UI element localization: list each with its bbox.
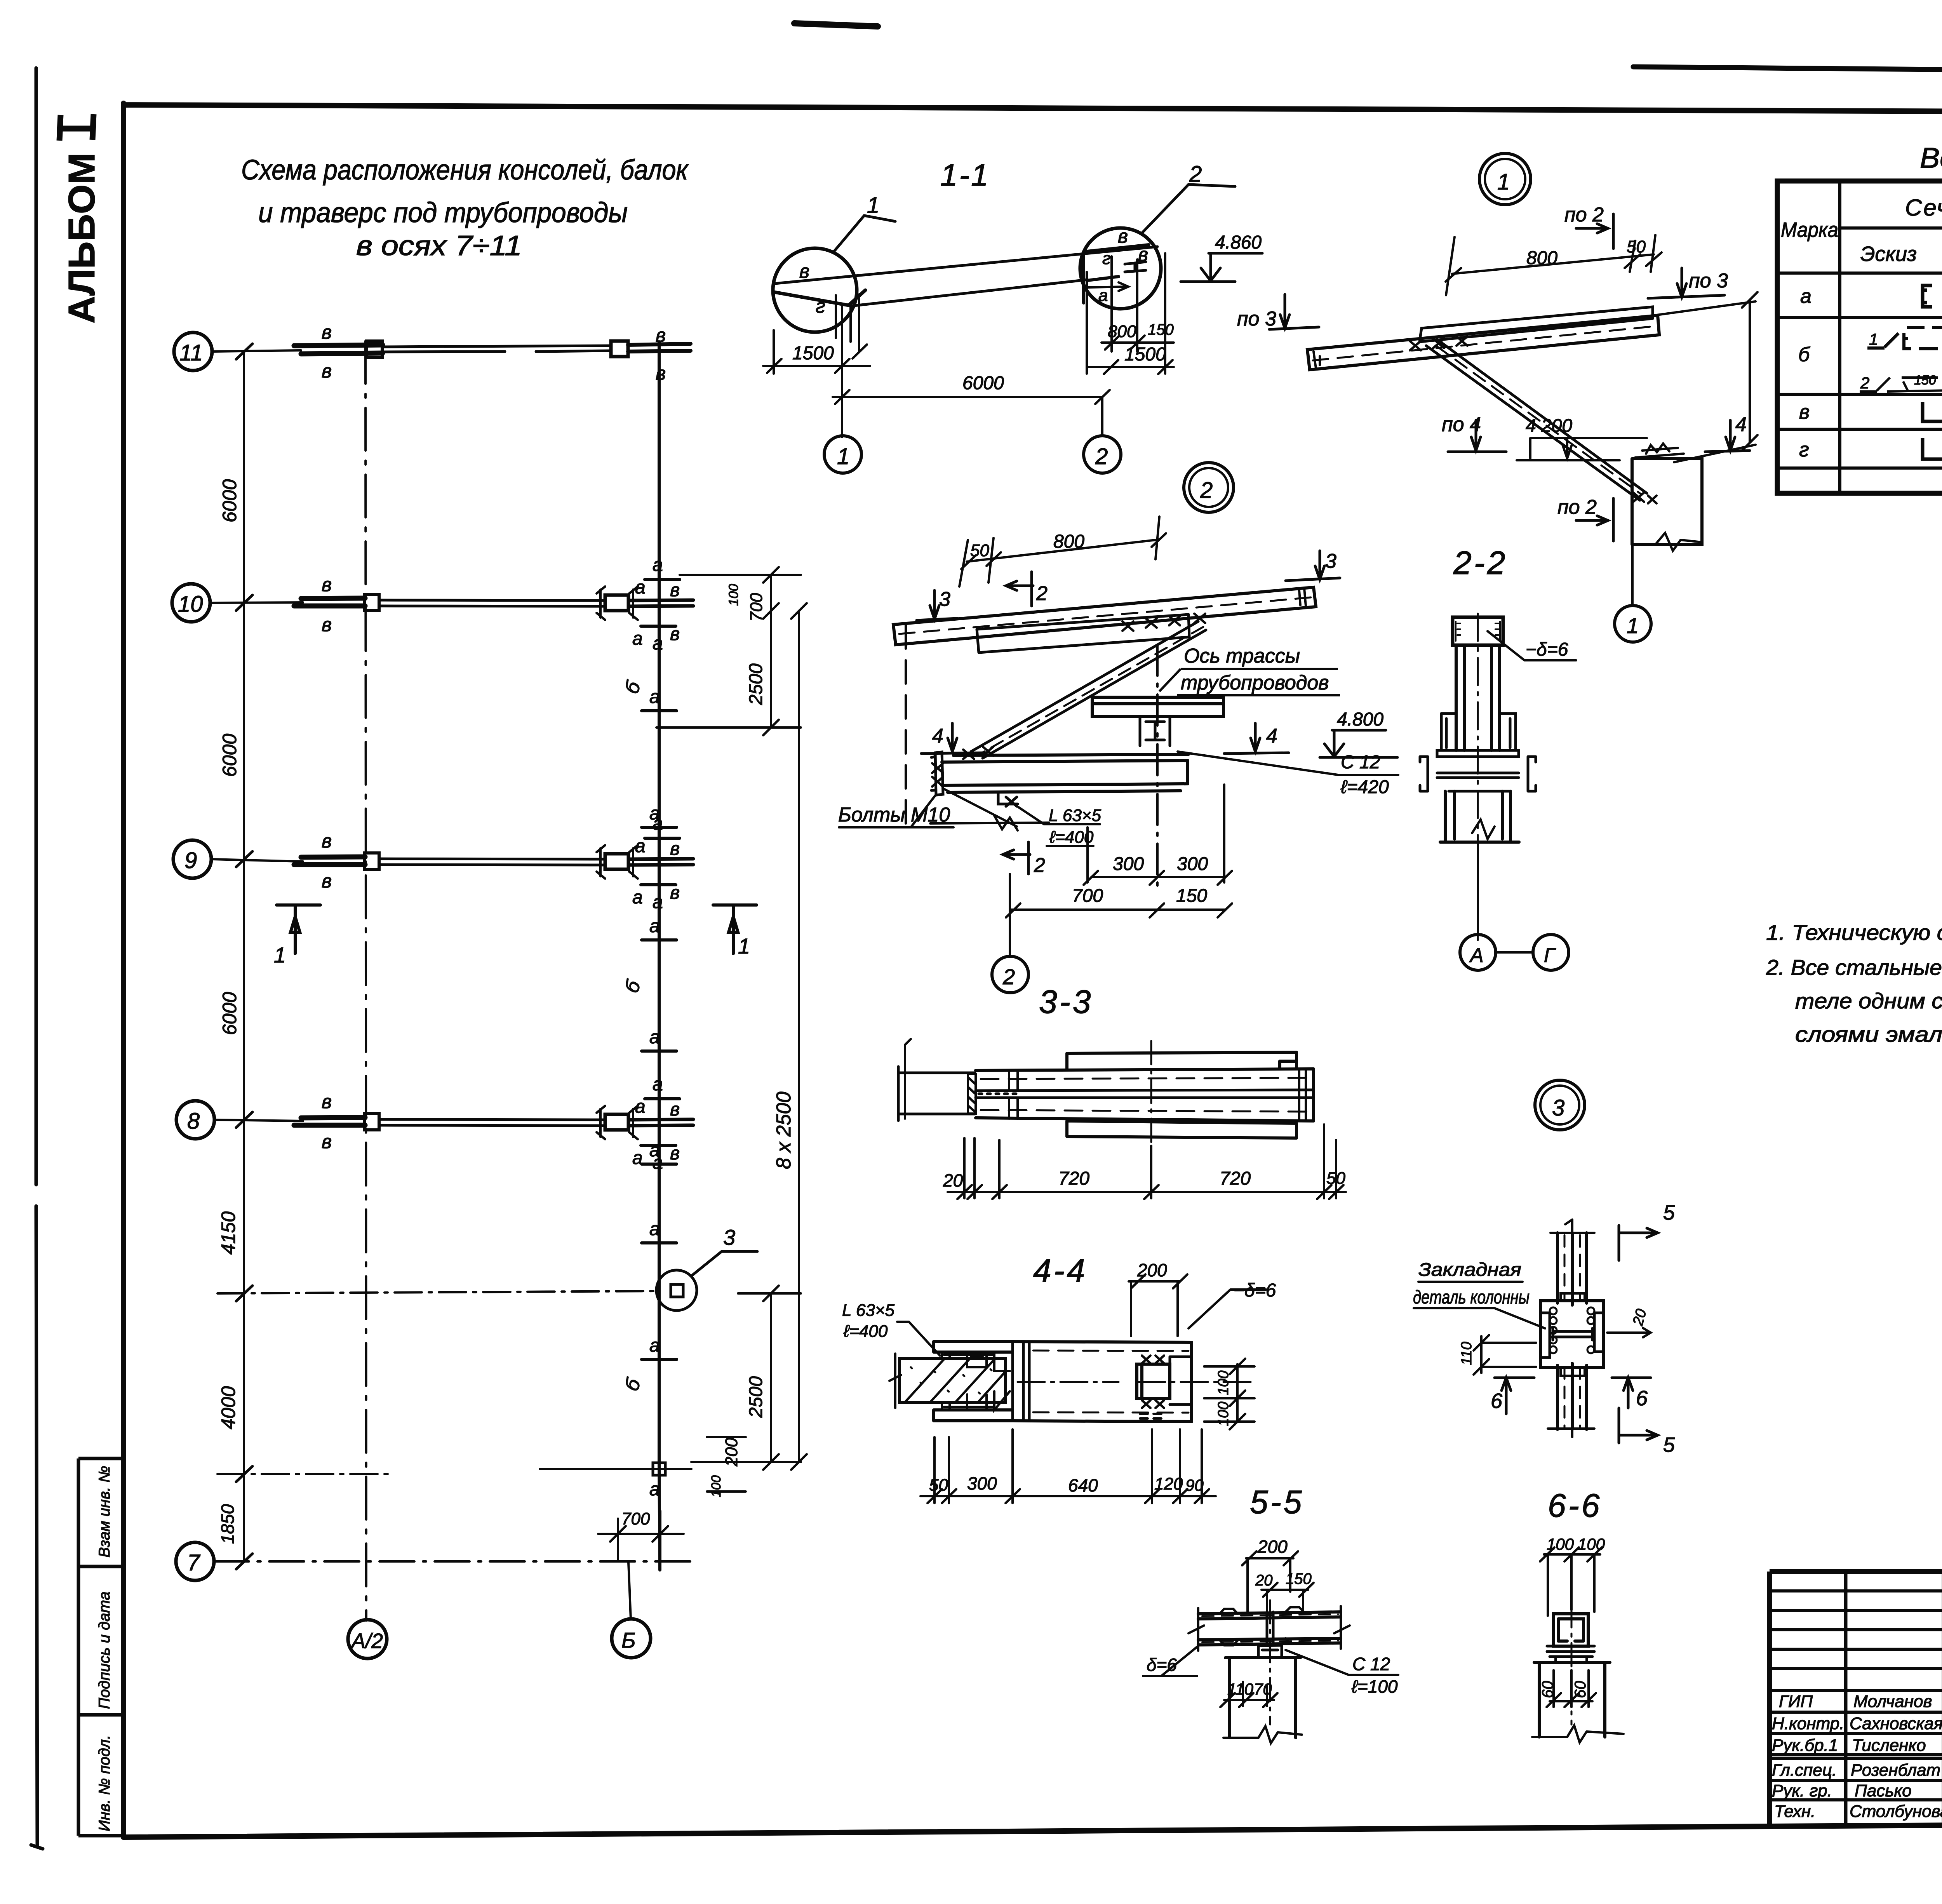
beam axis11 right end: [628, 344, 691, 352]
intermediate tick line 4150: [218, 1291, 656, 1293]
svg-text:10: 10: [178, 592, 203, 617]
svg-text:9: 9: [184, 848, 197, 873]
left extension with break: [930, 816, 1049, 830]
6-6 column break bottom: [1532, 1725, 1624, 1742]
dim 300 300 lines: [1084, 785, 1232, 885]
3-3 left beam extension: [898, 1067, 975, 1121]
svg-text:200: 200: [722, 1438, 741, 1467]
svg-text:деталь колонны: деталь колонны: [1413, 1287, 1530, 1308]
3-3 lower plate: [1067, 1121, 1296, 1138]
svg-text:60: 60: [1572, 1681, 1589, 1699]
title block signature rows: [1770, 1591, 1942, 1800]
5-5 bolt bumps bottom: [1220, 1638, 1304, 1645]
2-2 traverse channels: [1420, 757, 1536, 791]
console beam dashed axis: [1313, 326, 1655, 360]
svg-text:6: 6: [1636, 1387, 1648, 1410]
detail3 plate assembly outer: [1540, 1301, 1603, 1368]
svg-text:г: г: [1102, 249, 1111, 268]
svg-text:Столбунова: Столбунова: [1850, 1802, 1942, 1821]
5-5 column break: [1223, 1726, 1302, 1743]
axis line down to circle 1: [841, 412, 843, 436]
svg-text:ℓ=400: ℓ=400: [843, 1322, 888, 1341]
beam axis8 right end: [628, 1119, 693, 1126]
4-4 main beam top/bottom: [1013, 1342, 1192, 1422]
table header row lines: [1840, 226, 1942, 230]
beam row axis 10: [294, 580, 693, 626]
5-5 dashed lines in bars: [1202, 1614, 1338, 1616]
svg-text:6000: 6000: [219, 479, 240, 522]
beam axis11 middle: [382, 346, 611, 352]
beam dashed axis: [899, 597, 1311, 634]
svg-text:1: 1: [738, 934, 750, 958]
2-2 traverse web: [1437, 757, 1519, 791]
A/2 axis dash-dot line: [365, 341, 366, 1620]
console beam end cap left: [1314, 352, 1320, 368]
weld x marks crossing detail 2: [1122, 614, 1205, 631]
svg-text:Закладная: Закладная: [1418, 1260, 1521, 1280]
axis circle 2 below detail 2: [992, 956, 1028, 993]
svg-text:Болты М10: Болты М10: [838, 804, 950, 826]
4-4 dashes in right plate: [1140, 1414, 1161, 1418]
svg-text:5: 5: [1663, 1433, 1675, 1457]
base traverse assembly top plate: [954, 754, 1189, 755]
base left bracket: [931, 752, 943, 795]
svg-text:300: 300: [967, 1473, 997, 1493]
pipe axis vertical dash-dot: [1156, 645, 1159, 889]
svg-text:800: 800: [1053, 531, 1084, 552]
svg-text:1-1: 1-1: [940, 158, 990, 192]
svg-text:300: 300: [1113, 854, 1144, 874]
svg-text:L 63×5: L 63×5: [1049, 806, 1102, 825]
detail 3 leader: [691, 1251, 757, 1276]
lower short beam of detail 2: [977, 614, 1189, 653]
detail circle 2 (double ring): [1184, 463, 1234, 512]
pipe support bar (shoe): [1092, 697, 1223, 717]
po 3 mark right: [1269, 294, 1319, 329]
leader 1: [833, 216, 895, 252]
svg-text:б: б: [1798, 343, 1810, 366]
5-5 column: [1225, 1658, 1300, 1738]
svg-text:120: 120: [1154, 1474, 1183, 1493]
axis 11 circle: [174, 332, 212, 371]
svg-text:a: a: [649, 1140, 660, 1161]
5-5 dim 200: [1242, 1551, 1298, 1612]
svg-text:20: 20: [1255, 1572, 1273, 1589]
beam axis9 right end: [628, 859, 693, 865]
leader L63x5 (4-4): [897, 1322, 940, 1356]
row a: sketch channel: [1923, 285, 1932, 307]
svg-text:1: 1: [1627, 613, 1639, 638]
dim 700 150 lines: [1006, 874, 1232, 917]
svg-text:4: 4: [1266, 725, 1277, 747]
svg-text:a: a: [632, 887, 643, 908]
column plate axis11: [367, 341, 382, 357]
3-3 upper plate: [1067, 1052, 1296, 1069]
svg-text:50: 50: [929, 1476, 948, 1495]
svg-text:700: 700: [747, 593, 766, 621]
table row lines: [1777, 273, 1942, 468]
sheet left edge line: [31, 68, 43, 1849]
svg-text:Схема расположения консолей,: Схема расположения консолей, балок: [241, 155, 689, 186]
beam axis9 middle: [379, 859, 605, 865]
5-5 leader C12: [1286, 1650, 1398, 1675]
axis A/2 circle: [348, 1620, 387, 1659]
4-4 centerline: [1018, 1381, 1255, 1383]
svg-text:70: 70: [1254, 1680, 1272, 1698]
svg-text:50: 50: [1627, 237, 1646, 256]
svg-text:100: 100: [1215, 1402, 1232, 1426]
beam axis11 right bracket: [611, 341, 628, 357]
2-2 axis circle A: [1460, 935, 1496, 970]
svg-text:1500: 1500: [792, 343, 834, 364]
svg-text:ℓ=400: ℓ=400: [1049, 828, 1094, 847]
detail3 bolts left column: [1550, 1307, 1557, 1314]
svg-text:a: a: [649, 1335, 660, 1356]
beam axis9 right connection: [605, 854, 628, 869]
3-3 dimension line: [948, 1124, 1346, 1199]
table outer border: [1777, 181, 1942, 493]
svg-text:Рук.бр.1: Рук.бр.1: [1772, 1736, 1838, 1755]
right height dim line: [1654, 292, 1758, 462]
upper beam right part: [1420, 307, 1653, 342]
axis 10 line: [210, 602, 303, 603]
detail3 column verticals: [1557, 1233, 1587, 1429]
leader 2: [1142, 184, 1235, 233]
2-2 centerline: [1477, 614, 1479, 940]
dim 800 150 line right: [1102, 336, 1174, 350]
svg-text:С 12: С 12: [1352, 1654, 1390, 1674]
svg-text:А/2: А/2: [350, 1629, 383, 1653]
svg-text:2: 2: [1860, 374, 1869, 392]
svg-text:Эскиз: Эскиз: [1860, 242, 1917, 266]
svg-text:теле одним слоем ГФ-020 с: теле одним слоем ГФ-020 с последующей ок…: [1795, 989, 1942, 1013]
2-2 break mark: [1472, 820, 1495, 839]
2-2 connector line: [1496, 951, 1533, 954]
svg-text:720: 720: [1058, 1168, 1089, 1189]
4-4 vertical divider plates: [1013, 1342, 1029, 1421]
strut dashed line: [1437, 346, 1641, 494]
section mark 5 top: [1619, 1225, 1658, 1260]
column of detail 1: [1632, 459, 1702, 545]
2-2 column shaft: [1456, 645, 1500, 750]
scan streak top: [794, 23, 878, 26]
a tie bottom axis8: [641, 1144, 676, 1147]
svg-text:в: в: [670, 882, 680, 903]
6-6 centerline: [1571, 1604, 1573, 1725]
dim ticks on left dim line: [236, 344, 252, 1569]
axis 8 line: [214, 1120, 303, 1121]
svg-text:a: a: [653, 892, 663, 912]
column plate axis10: [364, 594, 379, 611]
axis circle 1 below detail 1: [1615, 606, 1651, 642]
4-4 right plate delta6: [1137, 1364, 1170, 1398]
detail3 middle I beam horizontal: [1553, 1328, 1592, 1340]
svg-text:8 х 2500: 8 х 2500: [773, 1091, 795, 1169]
8x2500 dimension line: [791, 603, 807, 1470]
svg-text:50: 50: [1326, 1169, 1345, 1188]
detail circle 1 of section 1-1: [773, 248, 857, 332]
strut lower connection welds: [1633, 493, 1657, 503]
svg-text:в: в: [670, 580, 680, 600]
axis 9 line: [211, 859, 303, 861]
svg-text:L 63×5: L 63×5: [842, 1301, 895, 1320]
dim 4200 bracket: [1517, 438, 1647, 460]
svg-text:1: 1: [837, 444, 849, 469]
column plate axis8: [364, 1114, 379, 1130]
leader C12 l=420: [1178, 752, 1398, 775]
axis 11 line: [212, 350, 301, 352]
svg-text:3: 3: [939, 588, 950, 611]
svg-text:100: 100: [709, 1475, 724, 1497]
section mark 6 right: [1612, 1378, 1651, 1408]
4-4 concrete column hatched: [900, 1359, 1006, 1403]
svg-text:200: 200: [1137, 1260, 1167, 1280]
scan streak above table: [1633, 67, 1942, 72]
6-6 dims 60 60 verticals: [1547, 1670, 1596, 1707]
dim 50/800 top of detail 2: [959, 517, 1166, 587]
strut lower weld marks: [963, 747, 994, 759]
left dimension line x=628: [243, 352, 245, 1561]
section mark 5 bottom: [1619, 1408, 1658, 1443]
svg-text:δ=6: δ=6: [1147, 1655, 1177, 1675]
4-4 left end ticks: [889, 1354, 901, 1408]
svg-text:6: 6: [1491, 1389, 1503, 1413]
angle clip under beam: [998, 792, 1018, 806]
svg-text:по 4: по 4: [1442, 413, 1481, 436]
zakladnaya label leader: [1414, 1282, 1545, 1328]
svg-text:4: 4: [1735, 413, 1747, 436]
svg-text:a: a: [649, 1027, 660, 1048]
svg-text:8: 8: [187, 1109, 200, 1134]
svg-text:3: 3: [1325, 550, 1336, 573]
axis 7 circle: [176, 1542, 214, 1580]
svg-text:640: 640: [1068, 1475, 1098, 1495]
svg-text:a: a: [649, 1219, 660, 1239]
svg-text:в: в: [322, 360, 332, 382]
4-4 bracket small parts top: [942, 1352, 1010, 1371]
beam right end cap: [1299, 588, 1306, 606]
detail3 left plate: [1540, 1313, 1550, 1358]
svg-text:в: в: [656, 324, 666, 346]
console beam of detail 1: [1307, 315, 1659, 370]
beam axis8 middle: [379, 1119, 605, 1126]
svg-text:и траверс под трубопроводы: и траверс под трубопроводы: [258, 197, 628, 228]
svg-text:700: 700: [1072, 886, 1103, 906]
5-5 centerline: [1269, 1600, 1271, 1725]
svg-text:ГИП: ГИП: [1779, 1692, 1813, 1711]
svg-text:в: в: [670, 624, 680, 644]
svg-text:a: a: [1098, 286, 1108, 305]
svg-text:ℓ=420: ℓ=420: [1340, 777, 1389, 797]
table column lines: [1840, 181, 1942, 493]
svg-text:по 2: по 2: [1564, 204, 1604, 226]
svg-text:110: 110: [1227, 1680, 1254, 1698]
svg-text:2-2: 2-2: [1453, 545, 1507, 581]
beam axis10 middle: [379, 600, 605, 606]
svg-text:800: 800: [1526, 248, 1557, 268]
svg-text:г: г: [816, 295, 825, 317]
detail3 top/bottom small plates: [1561, 1293, 1585, 1376]
dim 800/50 sloped line: [1446, 235, 1662, 295]
B circle leader: [628, 1562, 631, 1619]
5-5 support under: [1254, 1645, 1286, 1658]
svg-text:50: 50: [970, 541, 989, 560]
right circle internals: [1084, 245, 1149, 303]
svg-text:2500: 2500: [746, 1376, 766, 1418]
svg-text:в осях 7÷11: в осях 7÷11: [356, 230, 522, 261]
svg-text:2: 2: [1200, 478, 1213, 503]
svg-text:в: в: [670, 839, 680, 859]
section mark 1 right: [713, 905, 757, 954]
detail3 top tick: [1550, 1220, 1594, 1233]
svg-text:a: a: [649, 916, 660, 936]
svg-text:60: 60: [1539, 1681, 1556, 1699]
svg-text:6000: 6000: [219, 734, 240, 777]
svg-text:a: a: [653, 633, 663, 654]
beam axis10 right end: [628, 600, 693, 606]
5-5 middle web gap: [1267, 1612, 1273, 1644]
detail circle 1 (double ring): [1479, 153, 1531, 205]
svg-text:4150: 4150: [218, 1211, 239, 1255]
svg-text:4 200: 4 200: [1526, 416, 1572, 436]
svg-text:Ось трассы: Ось трассы: [1184, 645, 1300, 667]
2-2 top cap plate: [1453, 617, 1503, 645]
svg-text:Н.контр.: Н.контр.: [1772, 1714, 1844, 1733]
dim 6000 line: [833, 390, 1110, 404]
svg-text:a: a: [635, 1096, 646, 1117]
section mark 6 left: [1495, 1378, 1534, 1414]
5-5 traverse bars: [1198, 1612, 1341, 1645]
svg-text:3: 3: [1552, 1095, 1564, 1121]
a tie top axis10: [645, 578, 680, 581]
beam axis11 left console: [294, 345, 383, 346]
svg-text:90: 90: [1185, 1476, 1204, 1494]
title block outer: [1770, 1572, 1942, 1825]
svg-text:1850: 1850: [218, 1504, 238, 1544]
column plate axis9: [364, 853, 379, 869]
svg-text:11: 11: [179, 340, 203, 365]
3-3 main traverse body: [976, 1069, 1314, 1121]
svg-text:2: 2: [1189, 162, 1202, 187]
svg-text:6000: 6000: [962, 373, 1004, 393]
svg-text:Пасько: Пасько: [1855, 1781, 1912, 1800]
svg-text:a: a: [635, 836, 646, 856]
bottom right small dims 2500/200/100: [691, 1286, 801, 1492]
6-6 column: [1534, 1662, 1610, 1737]
svg-text:1: 1: [274, 943, 286, 967]
title block signature columns: [1846, 1572, 1942, 1825]
svg-text:a: a: [1800, 285, 1811, 308]
dim 1500 left: dim line and ticks: [763, 294, 870, 437]
svg-text:1: 1: [1869, 330, 1878, 348]
svg-text:150: 150: [1148, 321, 1174, 338]
svg-text:ℓ=100: ℓ=100: [1351, 1676, 1398, 1697]
po 4 mark: [1448, 420, 1506, 452]
svg-text:Б: Б: [621, 1628, 635, 1652]
svg-text:3-3: 3-3: [1039, 983, 1093, 1020]
level mark 4.800: [1320, 730, 1397, 757]
row v sketch angle: [1923, 402, 1942, 421]
svg-text:в: в: [1799, 401, 1810, 423]
svg-text:Взам инв. №: Взам инв. №: [96, 1466, 113, 1558]
section mark 4 right: [1705, 420, 1750, 452]
svg-text:в: в: [656, 362, 666, 384]
right group ext lines: [1087, 253, 1165, 374]
3-3 mid verticals: [905, 1039, 911, 1119]
dim 1500 right line: [1087, 360, 1174, 374]
detail circle 3 (double ring): [1535, 1080, 1585, 1130]
2-2 shoulder plate: [1437, 750, 1519, 757]
svg-text:4: 4: [932, 725, 943, 747]
beam row axis 9: [294, 838, 693, 885]
2-2 axis circle G: [1533, 935, 1569, 970]
svg-text:в: в: [322, 1131, 332, 1152]
a tie bottom axis10: [641, 625, 676, 628]
4-4 bracket small parts bottom: [942, 1391, 1010, 1410]
axis 10 circle: [172, 584, 210, 622]
section mark 1 left: [277, 905, 320, 954]
axis 8 circle: [176, 1101, 214, 1139]
6-6 channel section top: [1554, 1614, 1588, 1646]
svg-text:−δ=6: −δ=6: [1526, 639, 1568, 660]
axis line to circle 2: [1009, 916, 1011, 956]
traverse beam bottom line: [851, 280, 1088, 306]
leader delta=6 (2-2): [1488, 631, 1576, 660]
svg-text:100: 100: [1547, 1535, 1574, 1553]
svg-text:С 12: С 12: [1341, 752, 1380, 773]
svg-text:5: 5: [1663, 1201, 1675, 1224]
svg-text:трубопроводов: трубопроводов: [1181, 672, 1329, 694]
svg-text:720: 720: [1220, 1168, 1251, 1189]
3-3 small verticals left: [1009, 1072, 1018, 1119]
svg-text:a: a: [649, 1479, 660, 1500]
4-4 right end plates: [1170, 1357, 1191, 1405]
5-5 ends ticks: [1189, 1606, 1350, 1651]
strut dash: [978, 627, 1203, 755]
beam axis8 left console: [301, 1117, 365, 1118]
column break mark: [1632, 533, 1702, 551]
svg-text:a: a: [632, 628, 643, 649]
section mark 3 left: [917, 590, 957, 620]
weld x marks at crossing: [1410, 336, 1467, 350]
svg-text:Сахновская: Сахновская: [1850, 1714, 1942, 1733]
svg-text:Рук. гр.: Рук. гр.: [1772, 1781, 1832, 1800]
svg-text:Техн.: Техн.: [1774, 1802, 1815, 1821]
svg-text:г: г: [1799, 439, 1809, 461]
svg-text:по 3: по 3: [1237, 308, 1276, 330]
detail3 right plate: [1594, 1313, 1603, 1352]
3-3 bolts dotted on left: [979, 1093, 1018, 1095]
right circle I-beam mark: [1125, 262, 1146, 272]
svg-text:Марка: Марка: [1781, 218, 1838, 242]
leader bolts M10: [839, 788, 1017, 827]
level mark 4.860: [1181, 253, 1262, 282]
svg-text:в: в: [670, 1099, 680, 1120]
a tie top axis9: [645, 837, 680, 840]
svg-text:a: a: [649, 687, 660, 707]
beam axis10 right connection: [605, 595, 628, 611]
section mark 4 left of detail 2: [921, 723, 987, 754]
svg-text:в: в: [322, 1091, 332, 1112]
svg-text:a: a: [635, 577, 646, 598]
4-4 bracket top plate: [934, 1342, 1013, 1352]
diagonal strut of detail 1: [1426, 339, 1647, 500]
svg-text:150: 150: [1914, 373, 1936, 388]
svg-text:1. Техническую спецификацию: 1. Техническую спецификацию металла см:-…: [1766, 920, 1942, 945]
svg-text:Г: Г: [1544, 944, 1556, 967]
beam row axis 8: [294, 1099, 693, 1145]
svg-text:300: 300: [1177, 854, 1208, 874]
